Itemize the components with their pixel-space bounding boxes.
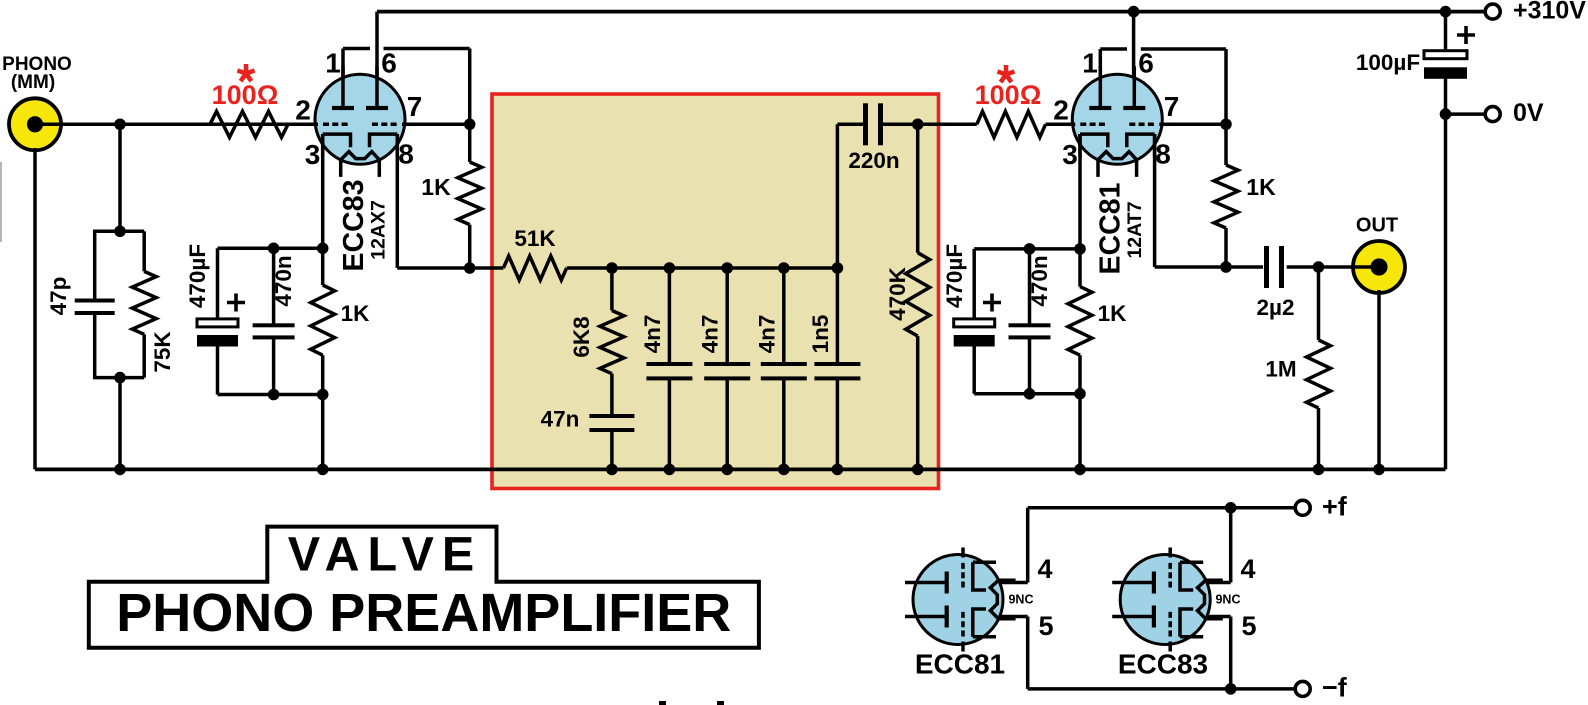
heater tube ECC81 bbox=[905, 548, 1016, 652]
wire: V1 pin 3 cathode down bbox=[321, 134, 325, 285]
svg-text:ECC83: ECC83 bbox=[338, 180, 370, 272]
wire: +310V top rail bbox=[377, 10, 1486, 14]
wire: V2 grid pin 7 to node bbox=[1161, 123, 1226, 127]
svg-text:ECC81: ECC81 bbox=[915, 648, 1005, 679]
connector PHONO (MM) RCA jack bbox=[9, 98, 61, 150]
terminal +310V bbox=[1485, 4, 1500, 19]
svg-text:1M: 1M bbox=[1265, 357, 1296, 382]
resistor 1K (V1 follower) bbox=[468, 124, 472, 162]
wire: ECC81 pin 4 to +f bbox=[999, 581, 1028, 585]
wire: stage1 cathode to ground bbox=[321, 395, 325, 470]
svg-text:3: 3 bbox=[305, 139, 321, 170]
resistor 1M bbox=[1317, 267, 1321, 340]
wire: OUT jack ground drop bbox=[1377, 290, 1381, 469]
resistor 1K cathode stage2 bbox=[1068, 287, 1092, 356]
node: V1 pin7 / 1K top bbox=[464, 119, 476, 131]
wire: V2 pin 1 anode link over to 1K top (with hop gap) bbox=[1099, 49, 1103, 108]
svg-text:ECC81: ECC81 bbox=[1095, 182, 1127, 274]
wire: V1 pin 6 anode to +310V rail bbox=[375, 12, 379, 112]
svg-text:3: 3 bbox=[1062, 139, 1078, 170]
svg-text:1K: 1K bbox=[1246, 174, 1276, 200]
asterisk marker stage 2 bbox=[1004, 65, 1009, 75]
wire: bottom bracket 47p/75K bbox=[93, 376, 144, 380]
svg-text:2: 2 bbox=[295, 94, 311, 125]
svg-text:7: 7 bbox=[1164, 91, 1180, 122]
wire: V2 pin 8 cathode down and right bbox=[1153, 134, 1157, 267]
svg-text:−f: −f bbox=[1322, 673, 1348, 703]
wire: V1 grid pin 7 to node bbox=[404, 123, 470, 127]
wire: ECC81 pin 5 to -f bbox=[999, 615, 1028, 619]
svg-text:1: 1 bbox=[325, 47, 341, 78]
node: rail to 100µF bbox=[1440, 6, 1452, 18]
svg-text:1: 1 bbox=[1082, 47, 1098, 78]
svg-text:0V: 0V bbox=[1513, 99, 1544, 127]
resistor 470K bbox=[916, 124, 920, 252]
OUT jack center pin bbox=[1371, 259, 1388, 276]
svg-text:1K: 1K bbox=[1098, 301, 1128, 326]
wire: cathode bracket stage1 bottom bbox=[218, 393, 323, 397]
wire: stage2 cathode to ground bbox=[1078, 394, 1082, 470]
connector OUT RCA jack bbox=[1353, 241, 1405, 293]
wire: cathode bracket stage2 top bbox=[974, 247, 1080, 251]
capacitor 4n7 (a) bbox=[668, 268, 672, 362]
svg-text:6: 6 bbox=[1138, 47, 1154, 78]
wire: input from PHONO jack to tube V1 grid pin2 bbox=[35, 123, 317, 127]
svg-text:75K: 75K bbox=[150, 331, 175, 373]
svg-text:4n7: 4n7 bbox=[698, 315, 723, 354]
svg-text:VALVE: VALVE bbox=[288, 527, 483, 581]
svg-text:6: 6 bbox=[381, 47, 397, 78]
wire: to V2 grid bbox=[1046, 123, 1075, 127]
wire: V2 pin 3 cathode down bbox=[1078, 134, 1082, 287]
svg-text:ECC83: ECC83 bbox=[1118, 648, 1208, 679]
capacitor 100µF reservoir bbox=[1424, 51, 1467, 59]
resistor 1K (V2 follower) bbox=[1224, 124, 1228, 165]
wire: top bracket 47p/75K bbox=[93, 230, 144, 234]
svg-text:220n: 220n bbox=[848, 148, 899, 173]
capacitor 2µ2 bbox=[1264, 246, 1269, 288]
capacitor 1n5 bbox=[836, 268, 840, 362]
node: output node bbox=[1313, 261, 1325, 273]
svg-text:(MM): (MM) bbox=[11, 72, 55, 93]
resistor 100Ω (stage 1 grid stopper) bbox=[210, 111, 288, 137]
svg-text:2: 2 bbox=[1053, 94, 1069, 125]
capacitor 4n7 (b) bbox=[725, 268, 729, 362]
capacitor 47n bbox=[610, 374, 614, 414]
resistor 75K bbox=[142, 231, 146, 271]
capacitor 4n7 (c) bbox=[782, 268, 786, 362]
svg-text:+f: +f bbox=[1322, 492, 1348, 522]
svg-text:PHONO PREAMPLIFIER: PHONO PREAMPLIFIER bbox=[116, 583, 731, 643]
wire: ECC83 pin 4 bbox=[1206, 581, 1231, 585]
svg-text:51K: 51K bbox=[514, 226, 556, 251]
svg-text:4: 4 bbox=[1037, 554, 1052, 584]
capacitor 470µF stage2 bbox=[972, 249, 976, 319]
svg-text:2µ2: 2µ2 bbox=[1257, 295, 1295, 320]
svg-text:9NC: 9NC bbox=[1215, 592, 1240, 606]
wire: ECC83 pin 5 bbox=[1206, 615, 1231, 619]
svg-text:12AT7: 12AT7 bbox=[1124, 201, 1146, 258]
left edge gray streak bbox=[0, 162, 2, 242]
svg-text:12AX7: 12AX7 bbox=[368, 200, 390, 260]
svg-text:100µF: 100µF bbox=[1356, 50, 1420, 75]
svg-text:470µF: 470µF bbox=[942, 244, 967, 308]
wire: V2 pin 6 anode to +310V rail bbox=[1132, 12, 1136, 112]
svg-text:470n: 470n bbox=[271, 255, 296, 306]
resistor 1K cathode stage1 bbox=[311, 285, 335, 355]
node: 220n / 470K top bbox=[912, 119, 924, 131]
terminal +f bbox=[1295, 500, 1310, 515]
svg-text:47p: 47p bbox=[46, 277, 71, 316]
terminal 0V bbox=[1440, 108, 1452, 120]
svg-text:5: 5 bbox=[1241, 611, 1256, 641]
svg-text:470µF: 470µF bbox=[185, 244, 210, 308]
svg-text:100Ω: 100Ω bbox=[975, 80, 1042, 110]
wire: cathode bracket stage1 top bbox=[218, 247, 323, 251]
wire: cathode bracket stage2 bottom bbox=[974, 392, 1080, 396]
capacitor 220n bbox=[836, 124, 840, 268]
svg-text:8: 8 bbox=[398, 138, 414, 169]
svg-text:+310V: +310V bbox=[1513, 0, 1586, 25]
wire: PHONO jack ground drop (left edge) bbox=[33, 148, 37, 469]
asterisk marker stage 1 bbox=[244, 64, 249, 74]
node: input junction bbox=[114, 119, 126, 131]
svg-text:9NC: 9NC bbox=[1008, 592, 1033, 606]
wire: ground bottom rail bbox=[35, 467, 1446, 471]
svg-text:1n5: 1n5 bbox=[808, 315, 833, 354]
svg-text:5: 5 bbox=[1038, 611, 1053, 641]
svg-text:470n: 470n bbox=[1027, 255, 1052, 306]
wire: EQ out to stage 2 grid bbox=[918, 123, 977, 127]
cropped marks at bottom edge bbox=[659, 701, 666, 705]
resistor 51K bbox=[503, 256, 566, 280]
svg-text:4n7: 4n7 bbox=[754, 315, 779, 354]
svg-text:1K: 1K bbox=[341, 301, 371, 326]
node: V2 pin7 / 1K top bbox=[1220, 119, 1232, 131]
heater tube ECC83 bbox=[1112, 548, 1223, 652]
capacitor 47p bbox=[93, 230, 97, 300]
capacitor 470µF stage1 bbox=[216, 248, 220, 319]
svg-text:100Ω: 100Ω bbox=[212, 80, 279, 110]
tube V1 ECC83 bbox=[315, 74, 405, 164]
svg-text:7: 7 bbox=[407, 91, 423, 122]
svg-text:4: 4 bbox=[1240, 554, 1255, 584]
RIAA EQ highlighted box bbox=[492, 94, 939, 489]
terminal -f bbox=[1295, 681, 1310, 696]
node: V2 output bbox=[1220, 261, 1232, 273]
svg-text:470K: 470K bbox=[885, 266, 910, 321]
wire: V1 pin 1 anode link over to 1K top (with hop gap) bbox=[341, 49, 345, 109]
wire: V2 out row bbox=[1226, 265, 1263, 269]
resistor 6K8 bbox=[610, 268, 614, 311]
wire: drop to 47p/75K network bbox=[118, 124, 122, 231]
svg-text:47n: 47n bbox=[541, 406, 580, 431]
wire: to ground rail bbox=[118, 378, 122, 470]
node: V1 output to EQ bbox=[464, 262, 476, 274]
wire: V1 pin 8 cathode down and right bbox=[396, 134, 400, 268]
resistor 100Ω (stage 2 grid stopper) bbox=[977, 111, 1046, 137]
title box VALVE PHONO PREAMPLIFIER bbox=[89, 527, 759, 648]
wire: right vertical 0V feed bbox=[1444, 12, 1448, 51]
svg-text:4n7: 4n7 bbox=[640, 315, 665, 354]
svg-text:1K: 1K bbox=[421, 174, 451, 200]
svg-text:6K8: 6K8 bbox=[569, 316, 594, 357]
capacitor 470n stage1 bbox=[272, 248, 276, 324]
PHONO jack center pin bbox=[27, 116, 43, 132]
svg-text:8: 8 bbox=[1155, 138, 1171, 169]
tube V2 ECC81 bbox=[1072, 74, 1162, 164]
wire: EQ input row bbox=[470, 266, 504, 270]
capacitor 470n stage2 bbox=[1028, 249, 1032, 324]
svg-text:OUT: OUT bbox=[1356, 214, 1398, 236]
